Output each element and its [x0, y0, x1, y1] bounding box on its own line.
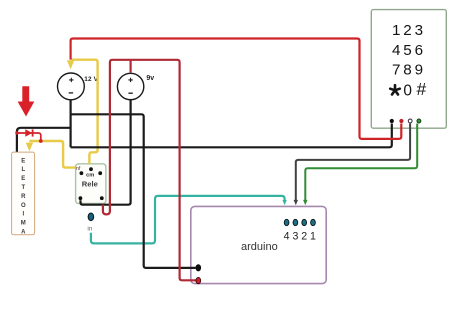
svg-text:3: 3 [415, 22, 423, 39]
arrowhead gray into arduino [294, 200, 298, 205]
svg-text:5: 5 [403, 42, 411, 59]
keypad pin white [408, 119, 412, 123]
arduino pin 4 [284, 219, 289, 225]
arrowhead teal into arduino [282, 200, 286, 205]
arduino pin red [196, 277, 201, 283]
svg-text:4: 4 [284, 230, 290, 242]
keypad U1 body [371, 10, 446, 129]
keypad pin black [390, 119, 394, 123]
keypad digits row 123 [392, 22, 423, 39]
svg-text:0: 0 [403, 83, 412, 100]
arrowhead yellow into 12V plus [67, 60, 74, 69]
svg-text:3: 3 [292, 230, 298, 242]
wire crimson stub to 9v plus [130, 60, 132, 73]
keypad digits row 456 [392, 42, 423, 59]
svg-text:T: T [21, 185, 25, 191]
svg-text:A: A [21, 230, 26, 236]
arrowhead yellow into electromagnet [26, 143, 33, 152]
wire black 12V minus down [69, 100, 71, 148]
svg-text:E: E [21, 176, 25, 182]
svg-text:Rele: Rele [82, 180, 98, 189]
wire red diode branch [17, 133, 41, 140]
wire black 9v minus to relay pin [81, 100, 131, 205]
annotation red block arrow [18, 86, 35, 116]
svg-text:6: 6 [415, 42, 423, 59]
svg-text:7: 7 [392, 62, 400, 79]
svg-text:1: 1 [310, 230, 316, 242]
svg-text:4: 4 [392, 42, 400, 59]
svg-text:9: 9 [415, 62, 423, 79]
svg-text:M: M [21, 221, 26, 227]
svg-text:E: E [21, 158, 25, 164]
relay pin top right [98, 171, 102, 175]
wire crimson 9v plus net to relay and arduino [103, 60, 196, 280]
keypad star key [390, 85, 400, 94]
wire yellow 12V plus to relay coil [72, 60, 98, 164]
relay K1 Rele body [76, 164, 106, 204]
wire teal relay in to arduino [91, 196, 285, 244]
relay in pin [88, 213, 94, 221]
electromagnet ELETROIMA body [12, 152, 35, 235]
wire gray keypad to arduino [296, 124, 410, 201]
arduino U2 body [191, 206, 326, 283]
arrowhead green into arduino [303, 200, 307, 205]
label ELETROIMA vertical letters [21, 158, 26, 235]
arduino pin 3 [293, 219, 298, 225]
keypad pin red [399, 119, 403, 123]
relay pin bottom left [79, 196, 83, 200]
relay pin top center [89, 167, 93, 171]
wire black keypad column to bus [71, 124, 392, 148]
junction node on black at diode [15, 131, 18, 134]
arduino pin 2 [302, 219, 307, 225]
power source V1 12V circle [58, 73, 85, 100]
svg-text:in: in [87, 225, 92, 232]
wire green keypad to arduino [305, 124, 417, 201]
wire black bus to arduino pin [71, 114, 196, 268]
svg-text:8: 8 [403, 62, 411, 79]
relay pin top left [80, 171, 84, 175]
relay pin bottom right [100, 196, 104, 200]
wire black electromagnet to bus [17, 128, 70, 152]
svg-text:1: 1 [392, 22, 400, 39]
svg-text:arduino: arduino [241, 241, 278, 253]
diode D1 [25, 129, 32, 136]
svg-text:2: 2 [403, 22, 411, 39]
svg-text:O: O [21, 203, 26, 209]
wire yellow junction to electromagnet and relay nf [29, 141, 75, 168]
svg-text:R: R [21, 194, 26, 200]
wire red keypad to 12V plus [71, 39, 402, 139]
svg-text:L: L [21, 167, 25, 173]
keypad digits row 789 [392, 62, 423, 79]
arduino pin 1 [311, 219, 316, 225]
power source V2 9v circle [117, 73, 143, 99]
junction node red-yellow [39, 139, 43, 143]
arduino pin black [196, 264, 202, 271]
svg-text:nf: nf [76, 166, 81, 172]
keypad pin green [417, 119, 421, 123]
svg-text:#: # [417, 79, 427, 99]
svg-text:cm: cm [86, 172, 94, 178]
svg-text:2: 2 [301, 230, 307, 242]
arduino pin labels 4 3 2 1 [284, 230, 316, 242]
svg-text:9v: 9v [146, 75, 154, 82]
